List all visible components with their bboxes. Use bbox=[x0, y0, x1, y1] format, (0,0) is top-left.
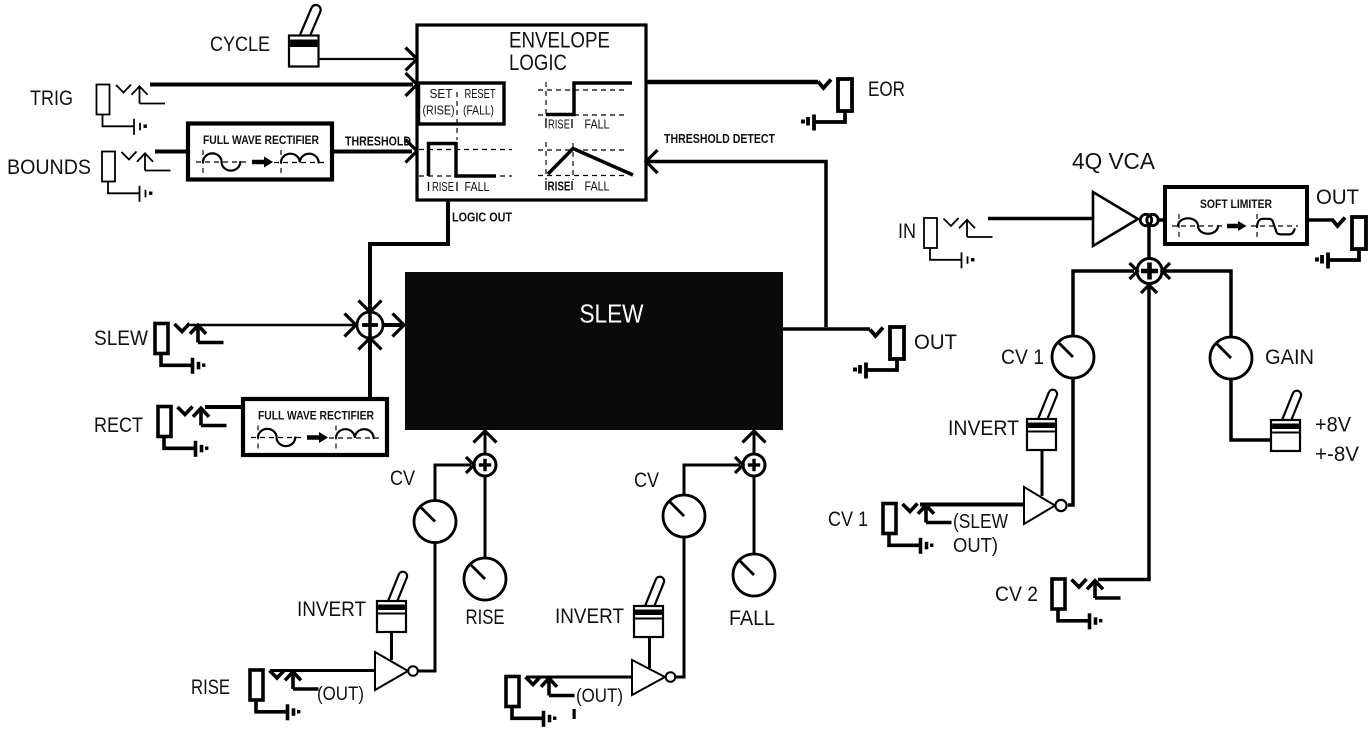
wire rings to vca sum bbox=[1147, 226, 1151, 259]
svg-text:OUT: OUT bbox=[914, 331, 957, 354]
graph gate step bbox=[538, 82, 632, 132]
wire inverter to cv knob (rise) bbox=[418, 543, 435, 671]
jack SLEW J4 bbox=[155, 324, 224, 374]
SLEW box U2 bbox=[405, 272, 783, 430]
svg-text:IN: IN bbox=[898, 220, 916, 243]
wire rise jack to inverter bbox=[270, 669, 375, 672]
wire CYCLE to envelope logic bbox=[318, 58, 414, 60]
svg-text:CV: CV bbox=[634, 469, 659, 492]
wire THRESHOLD to envelope logic bbox=[332, 150, 412, 154]
wire cv knob to fall sum bbox=[684, 465, 740, 494]
svg-text:OUT: OUT bbox=[1316, 186, 1359, 209]
svg-text:CYCLE: CYCLE bbox=[210, 33, 270, 56]
full wave rectifier FWR2 bbox=[243, 399, 387, 455]
svg-text:(OUT): (OUT) bbox=[576, 686, 623, 707]
knob CV fall bbox=[663, 495, 705, 537]
wire RECT to rectifier bbox=[205, 405, 247, 409]
wire cv1 path to sum bbox=[1073, 271, 1134, 337]
svg-text:+-8V: +-8V bbox=[1315, 443, 1359, 466]
wire invert switch to inverter (vca) bbox=[1041, 450, 1044, 496]
svg-text:FALL: FALL bbox=[585, 180, 610, 194]
knob FALL bbox=[733, 554, 775, 596]
jack CV2 J12 bbox=[1052, 579, 1121, 629]
graph gate pulse bbox=[419, 144, 512, 195]
jack EOR (output) J3 bbox=[801, 79, 852, 131]
jack OUT (slew output) J6 bbox=[853, 327, 904, 379]
svg-text:GAIN: GAIN bbox=[1265, 346, 1314, 369]
wire SLEW to summing node bbox=[190, 324, 354, 327]
wire IN to amplifier bbox=[988, 217, 1093, 221]
svg-text:(SLEW: (SLEW bbox=[953, 511, 1008, 533]
svg-text:LOGIC OUT: LOGIC OUT bbox=[452, 210, 512, 225]
amplifier A3 bbox=[1093, 192, 1138, 246]
svg-text:INVERT: INVERT bbox=[555, 605, 624, 628]
switch INVERT fall S3 bbox=[634, 575, 665, 637]
svg-text:SLEW: SLEW bbox=[580, 299, 644, 329]
svg-text:THRESHOLD DETECT: THRESHOLD DETECT bbox=[664, 131, 775, 146]
svg-text:ENVELOPE: ENVELOPE bbox=[509, 28, 610, 53]
wire rise knob to sum bbox=[484, 476, 487, 557]
inverter A4 (vca) bbox=[1024, 487, 1055, 524]
full wave rectifier FWR1 bbox=[188, 124, 332, 180]
jack BOUNDS J2 bbox=[102, 152, 171, 202]
svg-text:SOFT LIMITER: SOFT LIMITER bbox=[1200, 199, 1273, 211]
svg-text:FALL: FALL bbox=[585, 118, 610, 132]
svg-text:CV: CV bbox=[390, 467, 415, 490]
knob CV rise bbox=[414, 501, 456, 543]
svg-text:TRIG: TRIG bbox=[30, 87, 73, 110]
svg-text:4Q VCA: 4Q VCA bbox=[1072, 148, 1156, 174]
wire LOGIC OUT bbox=[370, 200, 448, 310]
wire limiter to OUT jack bbox=[1307, 218, 1334, 222]
svg-text:OUT): OUT) bbox=[953, 535, 998, 557]
svg-text:CV 1: CV 1 bbox=[828, 508, 868, 531]
svg-text:RISE: RISE bbox=[548, 118, 570, 132]
wire inverter to cv knob (fall) bbox=[676, 538, 684, 677]
knob GAIN bbox=[1210, 337, 1252, 379]
svg-text:+8V: +8V bbox=[1315, 414, 1351, 437]
svg-text:(OUT): (OUT) bbox=[317, 684, 364, 705]
svg-text:FALL: FALL bbox=[465, 180, 490, 194]
svg-text:RECT: RECT bbox=[94, 414, 143, 437]
wire rings to limiter bbox=[1158, 218, 1166, 222]
svg-text:INVERT: INVERT bbox=[948, 417, 1019, 440]
svg-text:THRESHOLD: THRESHOLD bbox=[345, 134, 411, 149]
set/reset box bbox=[419, 83, 505, 140]
wire BOUNDS to rectifier bbox=[155, 150, 192, 154]
summing node vca bbox=[1137, 259, 1162, 284]
svg-text:INVERT: INVERT bbox=[297, 598, 366, 621]
wire fall knob to sum bbox=[753, 476, 756, 554]
wire cv knob to rise sum bbox=[435, 465, 471, 500]
svg-text:BOUNDS: BOUNDS bbox=[7, 156, 91, 179]
wire switch to inverter (fall) bbox=[648, 637, 651, 668]
multiplier rings bbox=[1140, 214, 1151, 225]
switch CYCLE S1 bbox=[289, 3, 322, 66]
svg-text:(FALL): (FALL) bbox=[463, 104, 494, 118]
switch INVERT rise S2 bbox=[377, 570, 408, 632]
svg-text:SLEW: SLEW bbox=[94, 327, 148, 350]
wire TRIG to envelope logic bbox=[150, 83, 413, 87]
switch +8V S5 bbox=[1271, 389, 1302, 451]
jack FALL J8 bbox=[506, 677, 575, 727]
svg-text:EOR: EOR bbox=[868, 78, 905, 101]
svg-text:RISE: RISE bbox=[191, 676, 230, 699]
knob RISE bbox=[464, 558, 506, 600]
jack RISE J7 bbox=[250, 670, 319, 720]
inverter A2 (fall) bbox=[632, 660, 665, 695]
soft limiter box U3 bbox=[1165, 187, 1307, 244]
wire rectifier2 to sum bbox=[368, 340, 372, 399]
switch INVERT vca S4 bbox=[1027, 388, 1058, 450]
summing node fall bbox=[743, 454, 765, 476]
svg-text:FALL: FALL bbox=[729, 607, 775, 630]
svg-text:CV 2: CV 2 bbox=[995, 583, 1038, 606]
svg-text:RISE: RISE bbox=[466, 606, 505, 629]
inverter A1 (rise) bbox=[375, 652, 408, 690]
tick mark below fall (OUT) bbox=[573, 709, 576, 719]
wire gain knob to +8V switch bbox=[1231, 378, 1271, 440]
wire rise sum to slew box bbox=[484, 432, 487, 454]
jack RECT J5 bbox=[158, 407, 227, 457]
wire switch to inverter (rise) bbox=[390, 632, 393, 660]
wire threshold detect feedback bbox=[648, 162, 826, 328]
jack TRIG J1 bbox=[97, 85, 166, 135]
wire cv1 jack to inverter bbox=[920, 503, 1024, 507]
wire EOR bbox=[646, 80, 818, 85]
graph envelope triangle bbox=[538, 142, 633, 194]
svg-text:(RISE): (RISE) bbox=[423, 104, 455, 118]
summing node rise bbox=[474, 454, 496, 476]
svg-text:LOGIC: LOGIC bbox=[509, 50, 567, 75]
svg-text:RESET: RESET bbox=[465, 87, 496, 101]
svg-text:CV 1: CV 1 bbox=[1001, 346, 1044, 369]
svg-text:RISE: RISE bbox=[548, 180, 571, 194]
wire fall sum to slew box bbox=[753, 432, 756, 454]
wire cv1 knob to inverter bbox=[1068, 377, 1073, 505]
wire gain path to sum bbox=[1164, 271, 1231, 337]
wire SLEW box to OUT bbox=[783, 327, 870, 331]
svg-text:SET: SET bbox=[430, 87, 453, 101]
svg-text:RISE: RISE bbox=[432, 180, 454, 194]
knob CV1 bbox=[1052, 336, 1094, 378]
jack CV1 J11 bbox=[883, 504, 952, 554]
summing node S1 (slew input) bbox=[357, 312, 383, 338]
wire cv2 jack to vca sum bbox=[1098, 286, 1149, 580]
jack OUT (vca output) J10 bbox=[1315, 217, 1366, 269]
wire sum to slew box bbox=[383, 323, 402, 327]
jack IN J9 bbox=[924, 218, 993, 268]
wire fall jack to inverter bbox=[526, 676, 632, 679]
envelope logic box U1 bbox=[417, 25, 646, 200]
